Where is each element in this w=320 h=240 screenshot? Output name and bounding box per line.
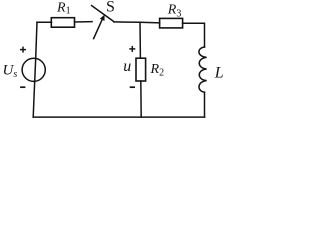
wire R1 to switch left contact <box>75 21 93 23</box>
wire node A to R3 <box>140 21 160 24</box>
resistor R1 <box>51 18 74 28</box>
svg-text:L: L <box>214 65 224 82</box>
switch S blade <box>92 6 114 22</box>
minus sign of voltage u <box>130 86 135 88</box>
svg-text:u: u <box>123 58 131 75</box>
svg-text:S: S <box>106 0 115 16</box>
switch S actuation arrow <box>94 19 103 38</box>
bottom wire <box>33 116 204 118</box>
switch arrowhead <box>100 15 105 21</box>
resistor R3 <box>160 18 183 28</box>
voltage source Us circle <box>22 58 45 81</box>
plus sign of voltage u <box>129 46 135 52</box>
wire right side down to inductor <box>204 23 206 47</box>
wire R2 to bottom junction <box>140 81 142 117</box>
wire through source circle <box>35 58 36 81</box>
left wire bottom: source to bottom-left corner <box>33 81 35 117</box>
wire switch to node A <box>114 21 140 23</box>
plus sign of source Us <box>20 47 26 53</box>
left wire top: source to top-left corner <box>36 22 37 58</box>
inductor L coil <box>199 47 207 92</box>
wire top-left from source to R1 <box>37 21 52 23</box>
wire R3 to top-right corner <box>183 22 204 24</box>
wire inductor to bottom-right corner <box>204 92 206 117</box>
minus sign of source Us <box>20 86 25 88</box>
wire node A down to plus of u <box>139 22 141 58</box>
resistor R2 <box>136 58 146 81</box>
